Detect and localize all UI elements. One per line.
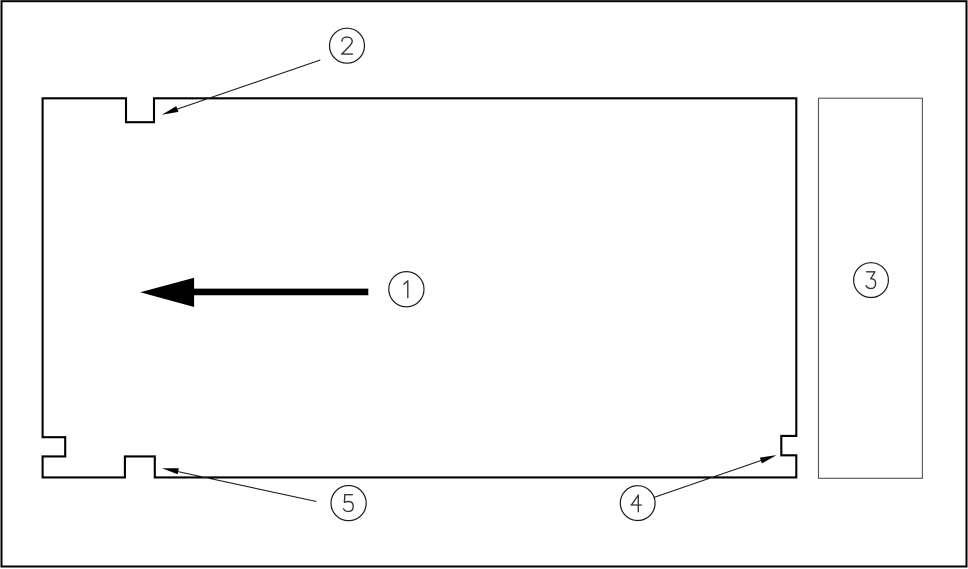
leader arrowhead 5 [162,468,179,474]
leader arrowhead 2 [162,106,179,115]
digit 3 [866,272,876,289]
bracket rectangle (item 3 body) [819,98,923,478]
balloon circle 3 [854,263,889,298]
balloon circle 2 [330,28,365,63]
digit 4 [631,495,641,512]
balloon circle 1 [389,272,424,307]
digit 2 [342,37,353,54]
digit 1 [404,281,408,298]
leader line to item 5 [178,472,317,502]
direction arrow (item 1) [140,278,368,307]
leader line to item 2 [177,60,321,109]
leader arrowhead 4 [760,455,777,463]
balloon circle 4 [620,486,655,521]
balloon circle 5 [331,486,366,521]
part outline: card body with notches (item 1 body) [43,98,797,477]
leader line to item 4 [654,460,762,497]
digit 5 [344,495,354,512]
